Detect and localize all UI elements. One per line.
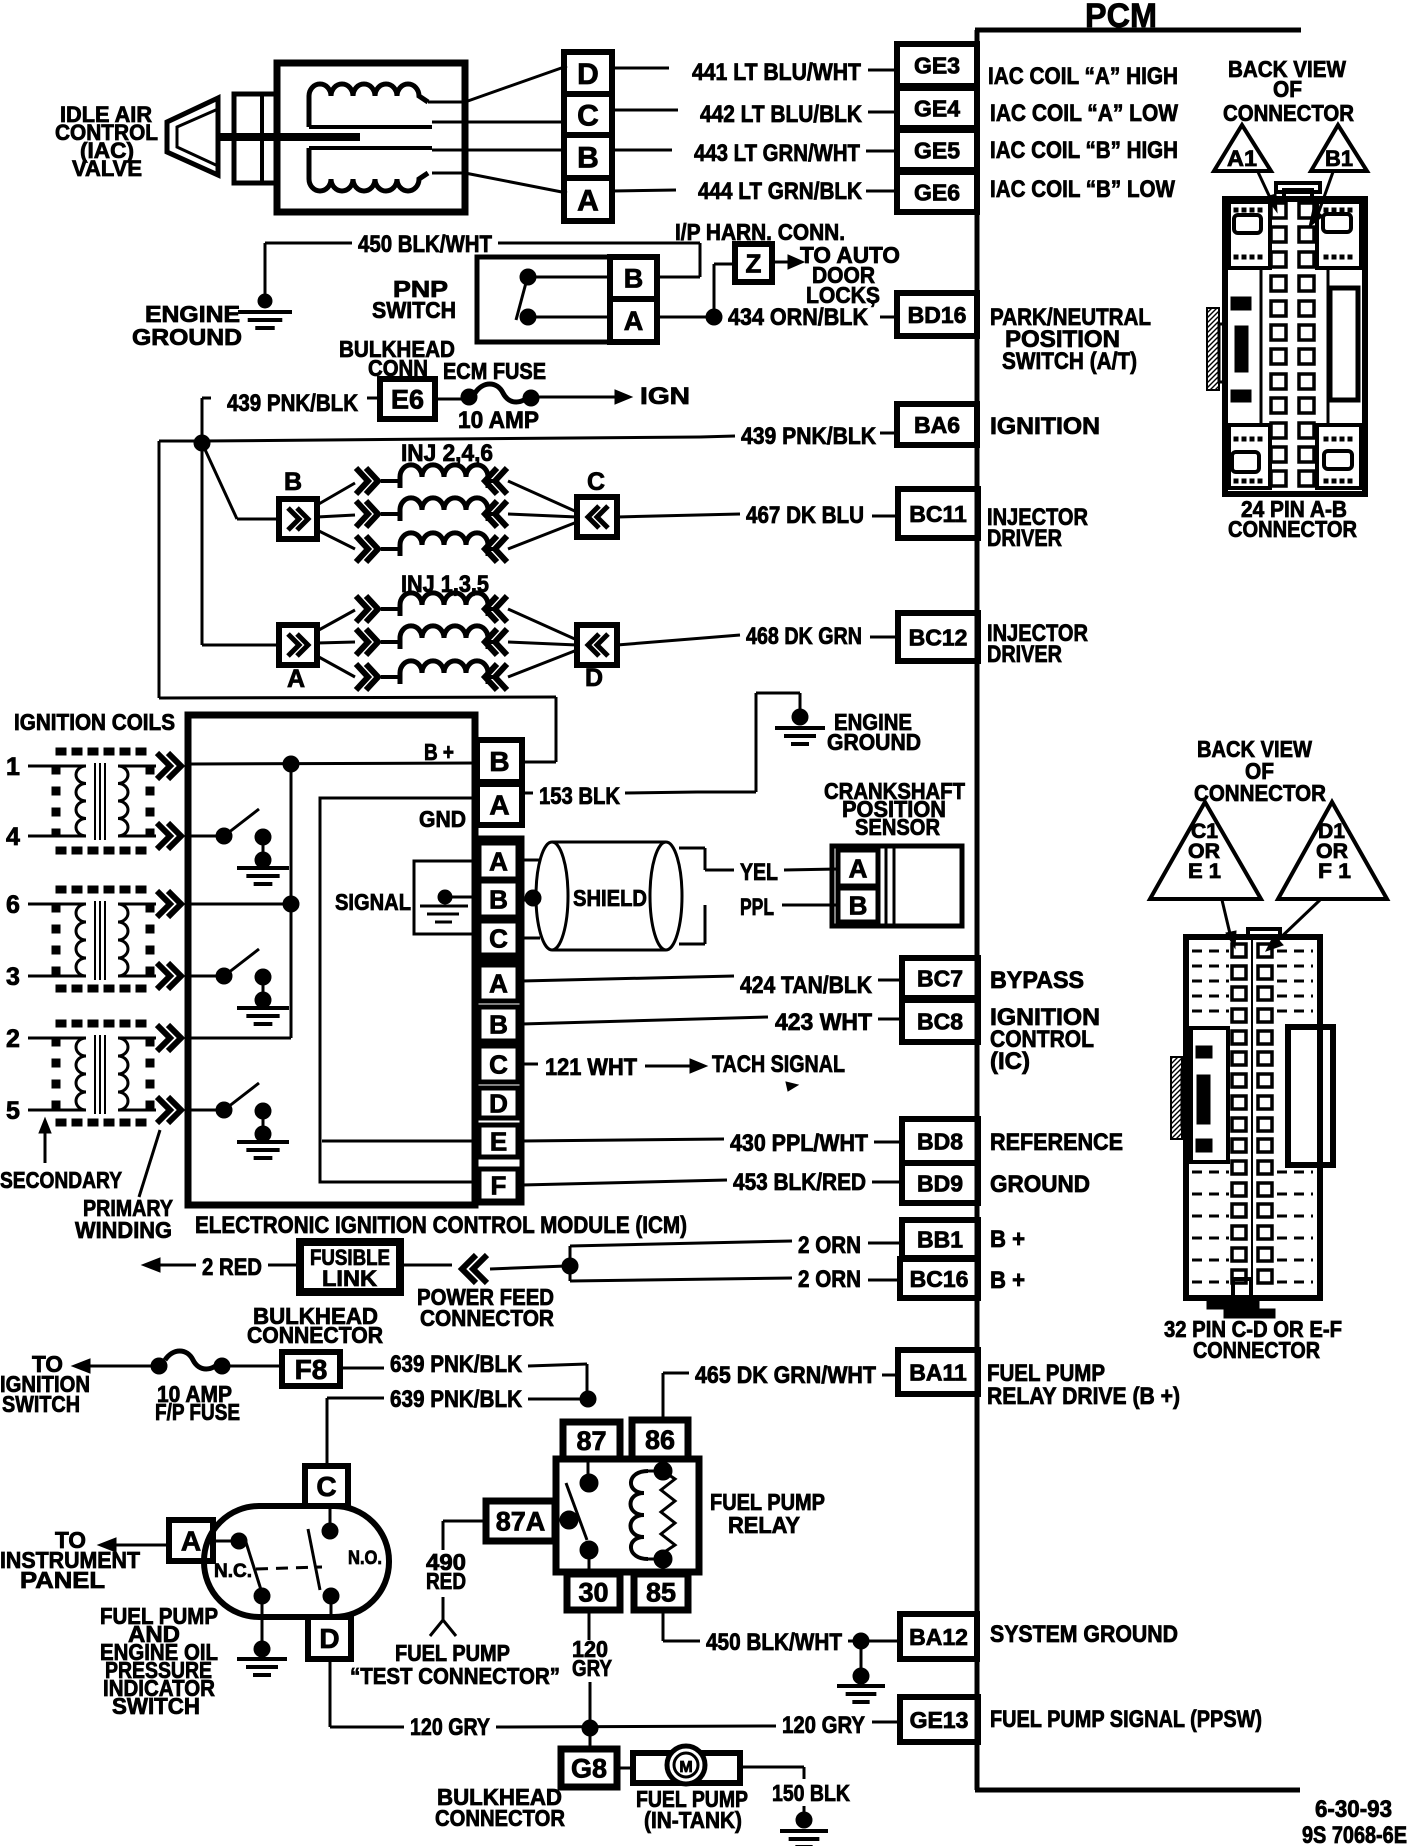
wire IAC coil A to pin C xyxy=(432,121,567,124)
label 10 AMP xyxy=(458,407,539,434)
label IAC COIL A LOW xyxy=(990,100,1178,127)
wire IAC coil A to pin D xyxy=(428,66,567,102)
label FUEL PUMP RELAY DRIVE (B+) xyxy=(987,1360,1180,1410)
label PARK/NEUTRAL POSITION SWITCH (A/T) xyxy=(990,304,1151,375)
wire 87A to test connector xyxy=(443,1521,486,1550)
wire 639 PNK/BLK upper xyxy=(340,1351,587,1399)
svg-text:1: 1 xyxy=(6,753,20,781)
label date 6-30-93 xyxy=(1315,1796,1392,1823)
svg-text:F8: F8 xyxy=(295,1354,328,1385)
wire 443 LT GRN/WHT xyxy=(612,140,897,167)
label SYSTEM GROUND xyxy=(990,1621,1178,1648)
fuel pump switch pin A xyxy=(169,1520,213,1561)
wire C pin down xyxy=(326,1440,329,1466)
svg-text:B1: B1 xyxy=(1325,146,1353,171)
ICM pin A lower xyxy=(479,965,518,1001)
PCM pin GE13 xyxy=(900,1697,978,1742)
svg-text:IGNITION: IGNITION xyxy=(990,413,1100,440)
fuse F/P fuse 10 AMP xyxy=(151,1351,282,1374)
arrow 2 RED xyxy=(142,1254,298,1281)
svg-text:RELAY DRIVE (B +): RELAY DRIVE (B +) xyxy=(987,1383,1180,1410)
wire coil 6 primary feed xyxy=(191,903,291,906)
svg-text:CONNECTOR: CONNECTOR xyxy=(1193,1337,1320,1363)
svg-text:SENSOR: SENSOR xyxy=(855,814,940,840)
svg-text:A: A xyxy=(181,1526,201,1557)
svg-text:E: E xyxy=(490,1126,507,1156)
svg-text:BA11: BA11 xyxy=(909,1359,967,1385)
ICM pin F lower xyxy=(479,1169,518,1201)
wire YEL xyxy=(679,848,838,886)
svg-text:TACH SIGNAL: TACH SIGNAL xyxy=(712,1051,845,1078)
injector 2 branch xyxy=(317,465,577,512)
wire 453 BLK/RED xyxy=(522,1169,902,1196)
svg-text:C: C xyxy=(489,1049,508,1079)
svg-text:GROUND: GROUND xyxy=(827,729,921,755)
24 pin connector left middle detail xyxy=(1231,268,1261,425)
24 pin connector hatched tab xyxy=(1207,308,1225,390)
PCM pin BC8 xyxy=(902,1000,978,1042)
label PRIMARY WINDING with pointer xyxy=(75,1130,173,1243)
svg-text:2 ORN: 2 ORN xyxy=(798,1232,861,1259)
svg-text:B +: B + xyxy=(424,739,454,765)
wire 439 PNK/BLK to BA6 xyxy=(202,423,897,450)
IAC connector pin A xyxy=(564,178,612,221)
wire 434 ORN/BLK xyxy=(657,298,897,331)
24 pin connector lock lever xyxy=(1328,268,1358,425)
svg-text:A: A xyxy=(287,665,305,693)
32 pin connector bottom tab xyxy=(1207,1279,1275,1318)
label ENGINE GROUND right xyxy=(827,709,921,755)
svg-text:IAC COIL “B” LOW: IAC COIL “B” LOW xyxy=(990,176,1175,203)
wire 430 PPL/WHT xyxy=(522,1130,902,1157)
PCM pin BC16 xyxy=(900,1259,978,1298)
svg-text:10 AMP: 10 AMP xyxy=(458,407,539,434)
label 10 AMP F/P FUSE xyxy=(155,1381,240,1425)
svg-text:SYSTEM GROUND: SYSTEM GROUND xyxy=(990,1621,1178,1648)
svg-text:GE3: GE3 xyxy=(914,52,960,78)
svg-text:B +: B + xyxy=(990,1267,1025,1294)
label SHIELD xyxy=(573,885,647,911)
callout triangle D1 OR F1 xyxy=(1278,802,1387,899)
svg-text:2 ORN: 2 ORN xyxy=(798,1266,861,1293)
svg-text:B: B xyxy=(489,1009,508,1039)
label TO INSTRUMENT PANEL xyxy=(0,1527,140,1593)
node 639 junction xyxy=(580,1391,596,1407)
24 pin connector body xyxy=(1225,183,1365,494)
wire 30 to 120 GRY xyxy=(572,1610,612,1728)
svg-text:A: A xyxy=(577,184,599,217)
svg-text:RED: RED xyxy=(426,1568,466,1594)
svg-text:87A: 87A xyxy=(496,1507,546,1537)
node power feed junction xyxy=(562,1258,578,1274)
label FUEL PUMP SIGNAL (PPSW) xyxy=(990,1706,1262,1733)
wire 465 DK GRN/WHT xyxy=(663,1362,898,1420)
ICM inner signal box xyxy=(320,798,475,1182)
relay pin 87 xyxy=(563,1422,620,1459)
PCM pin GE5 xyxy=(897,130,977,170)
PNP switch pin B xyxy=(610,257,657,299)
fuel pump switch pin C xyxy=(305,1466,348,1506)
svg-text:A: A xyxy=(489,790,509,821)
svg-text:GROUND: GROUND xyxy=(990,1171,1090,1198)
svg-text:BYPASS: BYPASS xyxy=(990,967,1084,994)
svg-text:IGN: IGN xyxy=(640,383,690,410)
relay pin 86 xyxy=(632,1420,688,1459)
callout triangle A1 xyxy=(1214,125,1271,171)
svg-text:N.O.: N.O. xyxy=(348,1548,382,1569)
label BYPASS xyxy=(990,967,1084,994)
svg-text:OF: OF xyxy=(1273,76,1302,102)
IAC valve body xyxy=(277,63,465,212)
ICM pin E lower xyxy=(479,1125,518,1157)
motor fuel pump in-tank xyxy=(617,1746,740,1784)
svg-text:Z: Z xyxy=(746,248,762,278)
svg-text:WINDING: WINDING xyxy=(75,1217,172,1243)
svg-text:150 BLK: 150 BLK xyxy=(772,1780,850,1806)
label BULKHEAD CONNECTOR (G8) xyxy=(435,1784,565,1831)
svg-text:87: 87 xyxy=(576,1426,606,1456)
PCM main box edge xyxy=(975,30,1301,1790)
svg-text:REFERENCE: REFERENCE xyxy=(990,1129,1123,1156)
svg-text:N.C.: N.C. xyxy=(214,1561,252,1582)
label IAC COIL A HIGH xyxy=(988,63,1178,90)
wire 441 LT BLU/WHT xyxy=(612,59,897,86)
svg-text:GE13: GE13 xyxy=(910,1707,969,1733)
label 439 PNK/BLK left xyxy=(227,390,380,417)
svg-text:CONNECTOR: CONNECTOR xyxy=(1194,780,1326,806)
fuel pump test connector fork xyxy=(430,1597,456,1636)
transformer ignition coil 2/5 xyxy=(6,1020,181,1126)
PNP switch contacts and lever xyxy=(516,269,612,325)
svg-text:ELECTRONIC IGNITION CONTROL MO: ELECTRONIC IGNITION CONTROL MODULE (ICM) xyxy=(195,1212,687,1239)
wire 85 to 450 BLK/WHT xyxy=(663,1610,897,1656)
label INJ 1,3,5 xyxy=(401,571,489,598)
svg-text:450 BLK/WHT: 450 BLK/WHT xyxy=(358,231,492,258)
svg-text:2 RED: 2 RED xyxy=(202,1254,262,1281)
ICM module box xyxy=(188,715,475,1205)
svg-text:BC7: BC7 xyxy=(917,965,963,991)
svg-text:SWITCH: SWITCH xyxy=(112,1693,200,1719)
arrow to auto door locks xyxy=(772,255,804,269)
PCM pin BA6 xyxy=(897,404,977,445)
svg-text:9S 7068-6E: 9S 7068-6E xyxy=(1302,1822,1407,1846)
svg-text:E 1: E 1 xyxy=(1188,860,1221,883)
PCM pin BC12 xyxy=(898,613,978,661)
PCM pin GE6 xyxy=(897,172,977,212)
svg-text:5: 5 xyxy=(6,1097,20,1125)
ground engine ground left xyxy=(238,294,292,328)
relay resistor zigzag xyxy=(654,1462,675,1574)
injector 5 branch xyxy=(317,650,577,690)
svg-text:CONNECTOR: CONNECTOR xyxy=(420,1305,554,1331)
wire 2 ORN to BC16 xyxy=(570,1266,900,1293)
svg-text:GE6: GE6 xyxy=(914,179,960,205)
svg-text:SWITCH: SWITCH xyxy=(372,297,456,323)
24 pin connector corner blocks xyxy=(1229,202,1361,488)
label 120 GRY left xyxy=(410,1714,490,1741)
ICM pin A (GND) xyxy=(477,784,522,825)
fuel pump and oil pressure switch oval xyxy=(204,1506,389,1617)
svg-text:2: 2 xyxy=(6,1025,20,1053)
label GND xyxy=(419,806,466,832)
label CRANKSHAFT POSITION SENSOR xyxy=(824,778,965,840)
svg-text:FUEL PUMP SIGNAL (PPSW): FUEL PUMP SIGNAL (PPSW) xyxy=(990,1706,1262,1733)
label IGN xyxy=(640,383,690,410)
label BULKHEAD CONN xyxy=(339,336,455,381)
svg-text:’: ’ xyxy=(870,298,876,320)
crankshaft position sensor connector xyxy=(832,846,962,926)
wire ICM C to shield xyxy=(522,937,540,940)
PCM pin BD9 xyxy=(902,1163,978,1203)
power feed connector chevron xyxy=(400,1255,566,1283)
svg-text:441 LT BLU/WHT: 441 LT BLU/WHT xyxy=(692,59,861,86)
svg-text:C: C xyxy=(489,923,508,953)
IAC connector pin C xyxy=(564,94,612,135)
label N.O. xyxy=(348,1548,382,1569)
svg-text:6: 6 xyxy=(6,891,20,919)
svg-text:A: A xyxy=(489,968,508,998)
svg-text:A1: A1 xyxy=(1227,146,1257,171)
wire 468 DK GRN xyxy=(617,623,898,650)
wire 150 BLK xyxy=(740,1767,850,1817)
node B+ vertical distribution xyxy=(283,756,299,1038)
wire junction to injector B drive xyxy=(202,443,279,519)
svg-text:D: D xyxy=(319,1623,339,1654)
svg-text:BC12: BC12 xyxy=(909,624,968,650)
ICM pin C lower xyxy=(479,1046,518,1082)
label 24 PIN A-B CONNECTOR xyxy=(1228,496,1357,542)
svg-text:430 PPL/WHT: 430 PPL/WHT xyxy=(730,1130,868,1157)
svg-text:4: 4 xyxy=(6,823,20,851)
32 pin connector hatched tab xyxy=(1171,1057,1187,1139)
injector 4 branch xyxy=(317,498,577,527)
label IGNITION (BA6) xyxy=(990,413,1100,440)
wire 2 ORN to BB1 xyxy=(570,1232,902,1266)
label FUEL PUMP (IN-TANK) xyxy=(636,1786,748,1833)
ICM crank pin A xyxy=(479,843,518,879)
svg-text:BC16: BC16 xyxy=(910,1266,969,1292)
switch ICM driver coil 4 xyxy=(191,809,289,884)
label REFERENCE xyxy=(990,1129,1123,1156)
wire coil 2 primary feed xyxy=(191,1037,291,1040)
32 pin connector left pin column xyxy=(1232,944,1246,1283)
switch N.C. contact xyxy=(213,1533,270,1604)
svg-text:ECM FUSE: ECM FUSE xyxy=(443,358,546,384)
svg-text:B: B xyxy=(577,141,599,174)
svg-text:BB1: BB1 xyxy=(917,1226,963,1252)
svg-text:M: M xyxy=(679,1759,692,1776)
label IGNITION CONTROL (IC) xyxy=(990,1004,1100,1075)
svg-text:639 PNK/BLK: 639 PNK/BLK xyxy=(390,1351,523,1378)
svg-text:C: C xyxy=(316,1471,336,1502)
wire 424 TAN/BLK xyxy=(522,972,902,999)
PCM pin BD8 xyxy=(902,1119,978,1163)
callout triangle C1 OR E1 xyxy=(1150,802,1261,899)
relay pin 87A xyxy=(486,1501,555,1541)
switch ICM driver coil 3 xyxy=(191,949,289,1024)
svg-text:86: 86 xyxy=(645,1425,675,1455)
svg-text:B: B xyxy=(849,890,868,920)
arrow B1 to connector xyxy=(1309,172,1333,227)
svg-text:CONNECTOR: CONNECTOR xyxy=(435,1805,565,1831)
svg-text:BC8: BC8 xyxy=(917,1008,963,1034)
relay pin 85 xyxy=(634,1574,688,1610)
svg-text:85: 85 xyxy=(646,1578,676,1608)
svg-text:PCM: PCM xyxy=(1085,0,1157,35)
svg-text:BA6: BA6 xyxy=(914,412,960,438)
32 pin connector right pin column xyxy=(1258,944,1272,1283)
svg-text:443 LT GRN/WHT: 443 LT GRN/WHT xyxy=(694,140,860,167)
svg-text:424 TAN/BLK: 424 TAN/BLK xyxy=(740,972,873,999)
32 pin connector lock lever xyxy=(1288,1027,1333,1165)
svg-text:GROUND: GROUND xyxy=(132,324,242,350)
fuel pump relay box xyxy=(556,1459,699,1572)
wire 442 LT BLU/BLK xyxy=(612,101,897,128)
wire ignition feed left branch xyxy=(159,441,556,762)
injector 3 branch xyxy=(317,626,577,655)
svg-text:F: F xyxy=(491,1170,507,1200)
svg-text:3: 3 xyxy=(6,963,20,991)
relay switch xyxy=(555,1459,598,1574)
fuel pump switch pin D xyxy=(308,1617,351,1659)
svg-text:121 WHT: 121 WHT xyxy=(545,1054,637,1081)
wire engine ground drop xyxy=(264,243,267,298)
wire 450 BLK/WHT xyxy=(265,231,700,277)
arrow TO INSTRUMENT PANEL xyxy=(98,1538,169,1552)
bulkhead connector E6 xyxy=(380,379,435,419)
label FUEL PUMP TEST CONNECTOR xyxy=(350,1640,560,1689)
node 120 GRY junction xyxy=(582,1720,598,1736)
svg-text:120 GRY: 120 GRY xyxy=(782,1712,865,1739)
svg-text:B: B xyxy=(624,264,644,294)
svg-text:CONNECTOR: CONNECTOR xyxy=(1228,516,1357,542)
switch ICM driver coil 5 xyxy=(191,1083,289,1158)
label ECM FUSE xyxy=(443,358,546,384)
label IDLE AIR CONTROL (IAC) VALVE xyxy=(55,102,158,181)
svg-text:GE4: GE4 xyxy=(914,95,960,121)
wire ICM B pin to injector feed net xyxy=(522,761,556,764)
svg-text:SIGNAL: SIGNAL xyxy=(335,889,411,915)
wire 639 PNK/BLK lower xyxy=(327,1386,588,1466)
svg-text:465 DK GRN/WHT: 465 DK GRN/WHT xyxy=(695,1362,876,1389)
svg-text:LINK: LINK xyxy=(322,1266,377,1291)
ground engine ground right xyxy=(775,709,825,744)
label ELECTRONIC IGNITION CONTROL MODULE (ICM) xyxy=(195,1212,687,1239)
svg-text:442 LT BLU/BLK: 442 LT BLU/BLK xyxy=(700,101,863,128)
label POWER FEED CONNECTOR xyxy=(417,1284,554,1331)
label INJ 2,4,6 xyxy=(401,440,493,467)
svg-text:30: 30 xyxy=(578,1578,608,1608)
IAC valve pintle cone xyxy=(167,98,218,175)
svg-text:GE5: GE5 xyxy=(914,137,960,163)
svg-text:IGNITION COILS: IGNITION COILS xyxy=(14,709,175,735)
IAC coil B winding xyxy=(309,148,432,191)
svg-text:434 ORN/BLK: 434 ORN/BLK xyxy=(728,304,869,331)
svg-text:467 DK BLU: 467 DK BLU xyxy=(746,502,864,529)
svg-text:GRY: GRY xyxy=(572,1655,612,1681)
relay coil xyxy=(631,1471,664,1559)
svg-text:B: B xyxy=(489,884,508,914)
label 32 PIN C-D OR E-F CONNECTOR xyxy=(1164,1316,1342,1363)
32 pin connector dashed wire rows xyxy=(1192,951,1313,1282)
IAC connector pin D xyxy=(564,52,612,94)
label SECONDARY with arrow xyxy=(0,1118,122,1193)
32 pin connector body xyxy=(1186,929,1320,1298)
wire junction to injector A drive xyxy=(202,443,279,645)
connector Z I/P harness xyxy=(735,244,772,282)
label INJECTOR DRIVER (BC11) xyxy=(987,504,1088,552)
bulkhead connector G8 xyxy=(561,1728,617,1787)
arrow IGN xyxy=(538,390,632,404)
arrow TO IGNITION SWITCH xyxy=(72,1359,152,1373)
svg-text:BD8: BD8 xyxy=(917,1128,963,1154)
svg-text:A: A xyxy=(489,846,508,876)
label INJECTOR DRIVER (BC12) xyxy=(987,620,1088,668)
label BACK VIEW OF CONNECTOR bottom xyxy=(1194,736,1326,806)
ICM pin B lower xyxy=(479,1007,518,1041)
label B+ (BC16) xyxy=(990,1267,1025,1294)
label GROUND (BD9) xyxy=(990,1171,1090,1198)
svg-text:BC11: BC11 xyxy=(909,501,967,527)
node 439 junction xyxy=(194,435,210,451)
PCM pin BA11 xyxy=(898,1350,978,1394)
label B+ (BB1) xyxy=(990,1226,1025,1253)
relay pin 30 xyxy=(567,1574,620,1610)
svg-text:468 DK GRN: 468 DK GRN xyxy=(746,623,862,650)
svg-text:D: D xyxy=(577,58,599,91)
fusible link xyxy=(300,1242,400,1292)
svg-text:(IN-TANK): (IN-TANK) xyxy=(644,1807,742,1833)
svg-text:(IC): (IC) xyxy=(990,1048,1030,1075)
PCM pin BB1 xyxy=(902,1220,978,1258)
ICM lower pin group outer xyxy=(475,960,522,1203)
label ENGINE GROUND left xyxy=(132,301,242,350)
svg-text:BD16: BD16 xyxy=(908,302,967,328)
IAC connector pin B xyxy=(564,135,612,178)
PCM pin BC7 xyxy=(902,958,978,998)
ground fuel pump switch xyxy=(237,1596,287,1675)
svg-text:F/P FUSE: F/P FUSE xyxy=(155,1399,240,1425)
ICM crank pin C xyxy=(479,921,518,955)
label I/P HARN. CONN. xyxy=(675,219,845,245)
svg-text:423 WHT: 423 WHT xyxy=(775,1009,872,1036)
wire IAC coil B to pin A xyxy=(432,173,567,193)
wire Z to 434 junction xyxy=(714,264,735,316)
injector connector A xyxy=(279,625,317,693)
label FUEL PUMP RELAY xyxy=(710,1489,825,1538)
wire 444 LT GRN/BLK xyxy=(612,178,897,205)
svg-text:C: C xyxy=(577,99,599,132)
dashed link xyxy=(256,1567,322,1569)
injector 6 branch xyxy=(317,522,577,562)
PNP switch box xyxy=(477,257,657,342)
svg-text:444 LT GRN/BLK: 444 LT GRN/BLK xyxy=(698,178,863,205)
PCM pin BA12 xyxy=(900,1614,977,1659)
label BACK VIEW OF CONNECTOR top xyxy=(1223,56,1354,126)
svg-text:BA12: BA12 xyxy=(909,1624,968,1650)
svg-text:PANEL: PANEL xyxy=(20,1567,105,1593)
ground 150 BLK xyxy=(780,1812,828,1846)
wire 153 BLK to engine ground xyxy=(756,693,800,792)
injector connector D xyxy=(577,625,617,692)
wire ICM B to shield drain xyxy=(522,890,541,906)
24 pin connector right pin column xyxy=(1299,203,1314,486)
label SIGNAL xyxy=(335,889,411,915)
node system ground junction xyxy=(853,1633,869,1649)
bulkhead connector F8 xyxy=(282,1352,340,1386)
svg-text:B: B xyxy=(284,468,302,496)
label PNP SWITCH xyxy=(372,276,456,323)
